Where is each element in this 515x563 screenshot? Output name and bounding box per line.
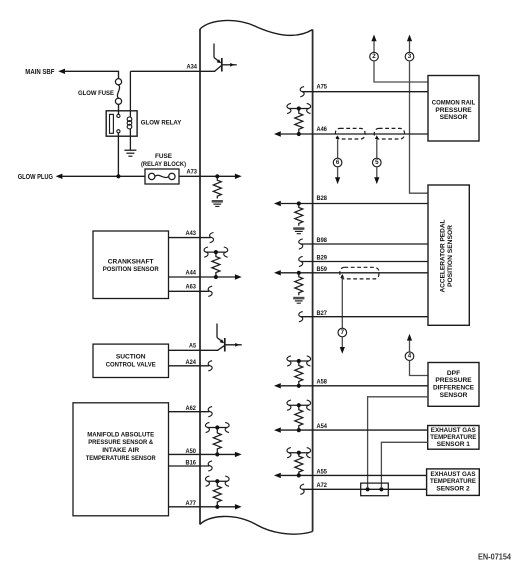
wire A77 [169,506,236,508]
svg-text:EXHAUST GAS: EXHAUST GAS [431,427,477,434]
svg-text:SUCTION: SUCTION [116,354,146,361]
hook B29 [299,256,303,266]
junction A44 node [214,275,218,279]
junction B28 node [297,201,301,205]
rail above A44 [206,251,226,253]
svg-text:CONTROL VALVE: CONTROL VALVE [106,361,157,368]
svg-text:B27: B27 [317,310,328,317]
svg-text:MANIFOLD ABSOLUTE: MANIFOLD ABSOLUTE [87,431,155,438]
svg-text:FUSE: FUSE [155,153,173,160]
svg-text:SENSOR 1: SENSOR 1 [437,441,471,448]
junction A55 node [297,473,301,477]
svg-text:GLOW PLUG: GLOW PLUG [18,174,54,181]
wire A5 [169,349,219,351]
wire 2 lower [374,61,428,82]
arrow B28 internal [274,201,281,206]
junction A73 node [215,174,219,178]
svg-text:POSITION SENSOR: POSITION SENSOR [447,225,454,287]
arrow A58 internal [274,383,281,388]
arrow A77 internal [235,504,242,509]
svg-text:COMMON RAIL: COMMON RAIL [432,100,476,107]
shield drain 5 tick [375,135,379,139]
fuse F2 element [149,173,155,179]
wire A54 [281,429,428,431]
junction A58 node [297,384,301,388]
svg-text:A46: A46 [317,126,328,133]
wire 4 upper [409,340,411,352]
arrow down 7 [340,347,345,354]
svg-text:INTAKE AIR: INTAKE AIR [102,447,139,454]
wire A55 [281,474,427,476]
wire A73 internal [200,175,235,177]
fuse F2 relay block box [145,169,179,184]
junction glow plug node [116,174,120,178]
ECU band top break (wavy) [200,20,313,35]
wire glow plug [62,175,145,177]
svg-text:PRESSURE: PRESSURE [435,107,472,114]
arrow down 5 [374,177,379,184]
connector number 5 [373,158,382,167]
wire B27 [301,316,428,318]
wire A44 [169,276,236,278]
exhaust gas temperature sensor 2 box [427,469,480,496]
junction B59 node [297,271,301,275]
shield drain 6 tick [336,135,340,139]
svg-text:TEMPERATURE: TEMPERATURE [430,434,477,441]
svg-text:A58: A58 [317,378,328,385]
svg-text:A5: A5 [189,343,196,350]
svg-text:TEMPERATURE SENSOR: TEMPERATURE SENSOR [86,455,156,462]
svg-text:3: 3 [408,53,412,60]
svg-text:A44: A44 [186,269,197,276]
wire A62 [169,411,210,413]
hook A75 [300,87,304,97]
svg-text:PRESSURE SENSOR &: PRESSURE SENSOR & [88,439,153,446]
resistor R1 [213,178,221,199]
ECU band right edge [312,30,314,532]
wire fuse to relay [118,104,120,114]
wire fuse to pin A73 [179,175,200,177]
svg-text:MAIN SBF: MAIN SBF [25,69,55,76]
wire A58 [281,385,428,387]
joint pin b [379,487,383,491]
arrow A50 internal [235,452,242,457]
wire A72 [302,488,426,490]
svg-text:A55: A55 [317,469,328,476]
exhaust gas temperature sensor 1 box [428,426,479,450]
svg-text:SENSOR: SENSOR [440,392,468,399]
relay pin circle top [117,114,120,117]
accelerator pedal position sensor box [428,185,469,325]
hook B16 [208,461,212,471]
svg-text:6: 6 [336,159,340,166]
wire A34 [130,70,215,72]
wire A43 [169,237,211,239]
wire 5 lower [376,167,378,178]
arrow A46 internal [274,131,281,136]
wire B16 [169,465,210,467]
manifold absolute pressure sensor box [73,403,169,516]
suction control valve box [93,344,169,377]
crankshaft position sensor box [93,231,169,299]
resistor R3 [295,274,303,295]
wire to glow fuse [118,71,120,79]
svg-text:A43: A43 [186,230,197,237]
connector number 3 [405,52,414,61]
arrow A73 internal [235,174,242,179]
wire A50 [169,453,236,455]
junction A46 node [297,132,301,136]
transistor Q2 [216,324,218,338]
svg-text:B28: B28 [317,195,328,202]
rail above A54 [289,404,309,406]
ground R1 [212,200,223,203]
hook A72 [300,484,304,494]
connector number 4 [405,352,414,361]
connector number 6 [333,158,342,167]
joint pin a [366,487,370,491]
svg-text:EN-07154: EN-07154 [478,553,511,562]
svg-text:A34: A34 [187,64,198,71]
connector number 7 [338,328,347,337]
svg-text:4: 4 [408,353,412,360]
wire A75 [302,91,428,93]
svg-text:A73: A73 [187,169,198,176]
wire 6 lower [337,167,339,178]
rail above A46 [289,108,309,110]
wire 7 lower [341,337,343,347]
rail above A55 [289,452,309,454]
hook A62 [208,407,212,417]
svg-text:A63: A63 [186,284,197,291]
arrow up 2 [371,35,376,42]
transistor Q1 [213,44,215,58]
junction A77 node [215,505,219,509]
common rail pressure sensor box [428,76,479,142]
wire relay to glow plug line [117,133,119,176]
shield box A46 b [374,128,404,139]
arrow B59 internal [274,270,281,275]
svg-text:SENSOR 2: SENSOR 2 [436,485,470,492]
hook A24 [208,361,212,371]
svg-text:B29: B29 [317,255,328,262]
wire B29 [301,261,428,263]
svg-text:GLOW RELAY: GLOW RELAY [141,120,182,127]
hook B27 [299,312,303,322]
arrow A54 internal [274,427,281,432]
wire EGT1 to joint [381,442,427,487]
joint connector box [361,483,389,496]
wire B59 [281,272,428,274]
arrow up 4 [407,334,412,341]
shield box A46 a [335,128,365,139]
wire DPF to joint [368,397,428,487]
hook A63 [208,286,212,296]
svg-text:CRANKSHAFT: CRANKSHAFT [108,258,154,265]
wire A24 [169,365,210,367]
svg-text:A54: A54 [317,423,328,430]
arrow A55 internal [274,473,281,478]
shield drain 7 tick [340,274,344,278]
svg-text:POSITION SENSOR: POSITION SENSOR [103,266,159,273]
svg-text:A75: A75 [317,84,328,91]
arrow up 3 [407,35,412,42]
relay coil [129,71,131,117]
arrow A44 internal [235,274,242,279]
wire 4 lower [410,361,429,376]
wire 3 lower [410,61,428,193]
wire A63 [169,290,210,292]
arrow to GLOW PLUG [56,174,63,179]
svg-text:DPF: DPF [447,370,460,377]
junction A54 node [297,428,301,432]
hook B98 [299,239,303,249]
svg-text:(RELAY BLOCK): (RELAY BLOCK) [141,161,186,168]
ECU band bottom break (wavy) [200,516,313,534]
svg-text:5: 5 [375,159,379,166]
ECU band left edge [199,29,201,525]
svg-text:ACCELERATOR PEDAL: ACCELERATOR PEDAL [439,219,446,292]
wire 6 [337,139,339,158]
relay K1 glow relay box [106,111,137,136]
DPF pressure difference sensor box [428,363,479,407]
connector number 2 [370,52,379,61]
rail above A77 [207,480,227,482]
wire 5 [376,139,378,158]
wire B98 [301,243,428,245]
junction A50 node [215,452,219,456]
arrow down 6 [335,177,340,184]
svg-text:EXHAUST GAS: EXHAUST GAS [431,471,477,478]
wire MAIN SBF [65,70,119,72]
ground below glow relay [124,149,136,151]
rail above A58 [289,360,309,362]
relay contact bar [110,114,114,133]
svg-text:B59: B59 [317,266,328,273]
wire A46 [281,133,428,135]
wire 3 upper [409,41,411,52]
relay pin circle bottom [117,130,120,133]
resistor R2 [295,205,303,226]
shield box B59 [340,267,379,279]
ground R3 [293,297,304,300]
svg-text:DIFFERENCE: DIFFERENCE [433,385,475,392]
hook A43 [210,233,214,243]
svg-text:SENSOR: SENSOR [440,114,468,121]
svg-text:PRESSURE: PRESSURE [435,377,472,384]
fuse F1 glow fuse [115,79,121,85]
wire 7 [341,278,343,328]
svg-text:7: 7 [341,329,345,336]
rail above A50 [207,427,227,429]
svg-text:TEMPERATURE: TEMPERATURE [430,478,477,485]
svg-text:2: 2 [372,53,376,60]
arrow to MAIN SBF [58,69,65,74]
svg-text:A72: A72 [317,482,328,489]
wire 2 upper [373,41,375,52]
wire B28 [281,203,428,205]
ground R2 [293,227,304,230]
svg-text:B98: B98 [317,237,328,244]
svg-text:GLOW FUSE: GLOW FUSE [78,90,114,97]
